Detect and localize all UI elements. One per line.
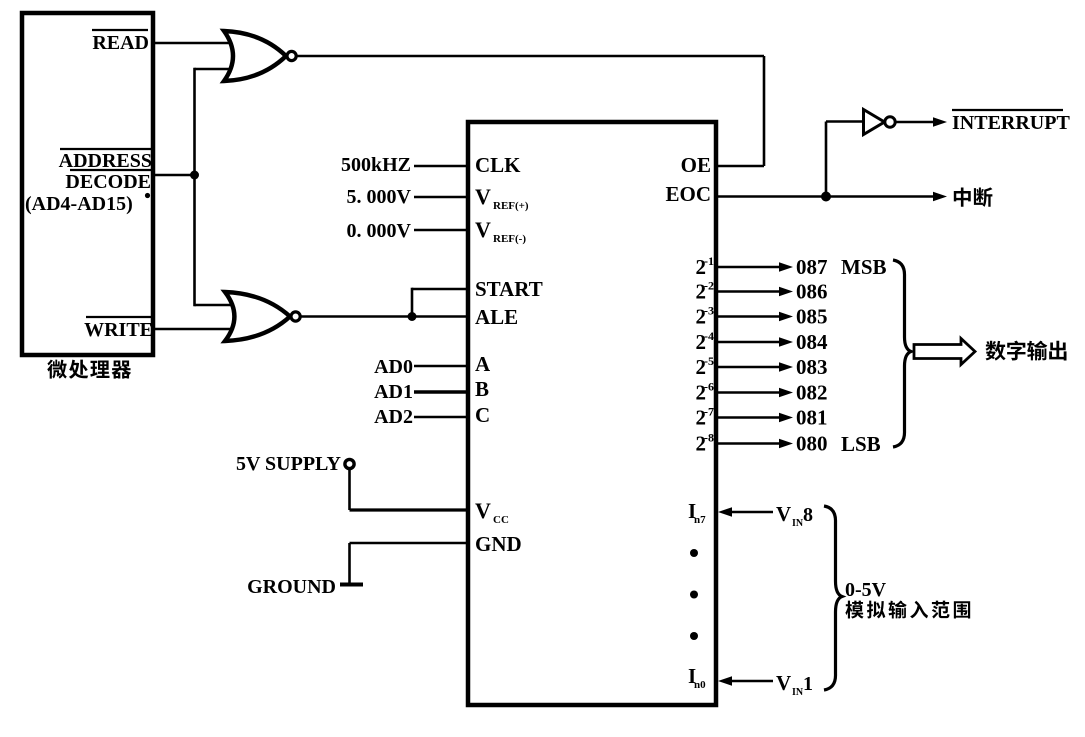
- wire inverter to INTERRUPT: [896, 117, 948, 127]
- svg-text:082: 082: [796, 381, 828, 405]
- label 0.000V: [347, 220, 412, 242]
- wire EOC line: [716, 195, 826, 198]
- label 微处理器: [47, 360, 131, 379]
- wire data output 081: [716, 413, 793, 423]
- svg-text:V: V: [776, 671, 791, 695]
- pin ADDRESS DECODE: [25, 149, 152, 215]
- label 5V SUPPLY: [236, 453, 342, 475]
- svg-text:087: 087: [796, 255, 828, 279]
- svg-text:083: 083: [796, 355, 828, 379]
- wire data output 084: [716, 337, 793, 347]
- label 085: [796, 305, 828, 329]
- wire VIN8 to IN7: [718, 507, 773, 517]
- pin label 2^-3: [696, 304, 715, 329]
- svg-text:REF(+): REF(+): [493, 200, 529, 212]
- svg-text:-3: -3: [704, 304, 714, 318]
- wire AD1 to B: [414, 390, 468, 393]
- svg-text:GND: GND: [475, 532, 522, 556]
- pin label 2^-6: [696, 380, 715, 405]
- svg-text:DECODE: DECODE: [65, 171, 151, 193]
- label GROUND: [247, 576, 336, 598]
- label 082: [796, 381, 828, 405]
- wire WRITE to U2: [153, 328, 238, 331]
- wire data output 086: [716, 287, 793, 297]
- svg-text:OE: OE: [681, 153, 711, 177]
- pin label VREF(+): [475, 184, 529, 212]
- svg-text:085: 085: [796, 305, 828, 329]
- wire VREF-: [414, 229, 468, 232]
- svg-text:AD1: AD1: [374, 381, 413, 403]
- label 083: [796, 355, 828, 379]
- pin label 2^-2: [696, 279, 715, 304]
- svg-text:(AD4-AD15): (AD4-AD15): [25, 193, 133, 215]
- label AD0: [374, 356, 413, 378]
- svg-text:5V SUPPLY: 5V SUPPLY: [236, 453, 342, 475]
- label MSB: [841, 255, 887, 279]
- pin label A: [475, 352, 491, 376]
- label 0-5V: [845, 579, 887, 601]
- svg-text:8: 8: [803, 504, 813, 526]
- svg-text:CLK: CLK: [475, 153, 521, 177]
- pin label 2^-1: [696, 254, 715, 279]
- svg-text:0-5V: 0-5V: [845, 579, 887, 601]
- wire AD2 to C: [414, 416, 468, 419]
- label 数字输出: [985, 341, 1066, 361]
- svg-text:ADDRESS: ADDRESS: [59, 150, 152, 172]
- label AD1: [374, 381, 413, 403]
- svg-text:-2: -2: [704, 279, 714, 293]
- label 081: [796, 406, 828, 430]
- svg-text:MSB: MSB: [841, 255, 887, 279]
- wire ADDRESS DECODE to node: [153, 174, 195, 177]
- wire stub to U2 input: [195, 304, 234, 307]
- wire stub to U1 input: [195, 68, 233, 71]
- wire VREF+: [414, 196, 468, 199]
- svg-text:n0: n0: [694, 679, 706, 691]
- svg-text:500kHZ: 500kHZ: [341, 154, 411, 176]
- svg-text:5. 000V: 5. 000V: [347, 186, 412, 208]
- svg-text:B: B: [475, 377, 489, 401]
- label 模拟输入范围: [845, 601, 970, 619]
- svg-text:084: 084: [796, 330, 828, 354]
- wire data output 082: [716, 388, 793, 398]
- wire U2 output to ALE: [301, 315, 468, 318]
- wire ALE node to START: [412, 288, 468, 317]
- svg-text:-6: -6: [704, 380, 714, 394]
- wire GND pin: [350, 543, 469, 583]
- label 087: [796, 255, 828, 279]
- svg-text:GROUND: GROUND: [247, 576, 336, 598]
- label 中断: [954, 187, 993, 207]
- wire data output 080: [716, 439, 793, 449]
- node EOC junction: [821, 192, 831, 202]
- node ALE junction: [408, 312, 417, 321]
- ground symbol: [340, 583, 363, 587]
- svg-text:AD2: AD2: [374, 406, 413, 428]
- label VIN1: [776, 671, 813, 698]
- pin label IN0: [688, 664, 706, 691]
- pin label 2^-7: [696, 405, 715, 430]
- label INTERRUPT: [952, 110, 1070, 134]
- wire data output 085: [716, 312, 793, 322]
- nor gate U2: [225, 292, 300, 341]
- label AD2: [374, 406, 413, 428]
- label 5.000V: [347, 186, 412, 208]
- wire vertical bus U1-U2: [193, 68, 196, 307]
- wire VIN1 to IN0: [718, 676, 773, 686]
- pin label IN7: [688, 499, 706, 526]
- nor gate U1: [224, 31, 296, 81]
- svg-text:-4: -4: [704, 329, 714, 343]
- pin label EOC: [665, 182, 711, 206]
- wire AD0 to A: [414, 365, 468, 368]
- svg-text:CC: CC: [493, 514, 509, 526]
- svg-text:C: C: [475, 403, 490, 427]
- wire EOC up to inverter: [826, 122, 864, 197]
- pin label VREF(-): [475, 217, 526, 245]
- svg-text:INTERRUPT: INTERRUPT: [952, 112, 1070, 134]
- svg-text:V: V: [475, 498, 491, 523]
- svg-text:081: 081: [796, 406, 828, 430]
- inverter U3: [864, 110, 896, 135]
- pin label 2^-8: [696, 431, 715, 456]
- wire EOC to 中断 arrow: [826, 192, 947, 202]
- pin label 2^-4: [696, 329, 715, 354]
- svg-text:086: 086: [796, 280, 828, 304]
- ADC IC box: [468, 122, 716, 705]
- terminal 5V supply: [345, 459, 354, 468]
- pin label CLK: [475, 153, 521, 177]
- ellipsis dots analog inputs: [690, 549, 698, 640]
- wire data output 087: [716, 262, 793, 272]
- svg-text:0. 000V: 0. 000V: [347, 220, 412, 242]
- wire U1 output to OE: [298, 56, 765, 166]
- pin label START: [475, 277, 543, 301]
- brace digital outputs: [893, 260, 911, 447]
- label VIN8: [776, 502, 813, 529]
- pin WRITE: [84, 317, 153, 341]
- pin label C: [475, 403, 490, 427]
- pin label 2^-5: [696, 354, 715, 379]
- svg-text:LSB: LSB: [841, 432, 881, 456]
- pin label OE: [681, 153, 711, 177]
- label LSB: [841, 432, 881, 456]
- svg-text:V: V: [475, 217, 491, 242]
- svg-text:V: V: [776, 502, 791, 526]
- wire READ to U1: [153, 42, 232, 45]
- label 500kHZ: [341, 154, 411, 176]
- pin label B: [475, 377, 489, 401]
- wire CLK: [414, 165, 468, 168]
- svg-text:080: 080: [796, 432, 828, 456]
- svg-text:REF(-): REF(-): [493, 233, 526, 245]
- wire data output 083: [716, 362, 793, 372]
- svg-text:EOC: EOC: [665, 182, 711, 206]
- svg-text:ALE: ALE: [475, 305, 518, 329]
- svg-text:-5: -5: [704, 354, 714, 368]
- pin label VCC: [475, 498, 509, 526]
- svg-text:AD0: AD0: [374, 356, 413, 378]
- hollow arrow 数字输出: [914, 339, 975, 365]
- pin label ALE: [475, 305, 518, 329]
- wire 5V to VCC: [350, 469, 469, 510]
- label 084: [796, 330, 828, 354]
- brace analog inputs: [824, 506, 842, 690]
- svg-text:-7: -7: [704, 405, 714, 419]
- svg-text:A: A: [475, 352, 491, 376]
- svg-text:START: START: [475, 277, 543, 301]
- svg-text:WRITE: WRITE: [84, 319, 153, 341]
- label 080: [796, 432, 828, 456]
- svg-text:1: 1: [803, 673, 813, 695]
- svg-text:n7: n7: [694, 514, 706, 526]
- svg-text:V: V: [475, 184, 491, 209]
- node ADDRESS-DECODE junction: [190, 171, 199, 180]
- svg-text:-8: -8: [704, 431, 714, 445]
- label 086: [796, 280, 828, 304]
- microprocessor box: [22, 13, 153, 355]
- pin label GND: [475, 532, 522, 556]
- svg-text:-1: -1: [704, 254, 714, 268]
- pin READ: [92, 30, 149, 54]
- svg-text:READ: READ: [92, 32, 149, 54]
